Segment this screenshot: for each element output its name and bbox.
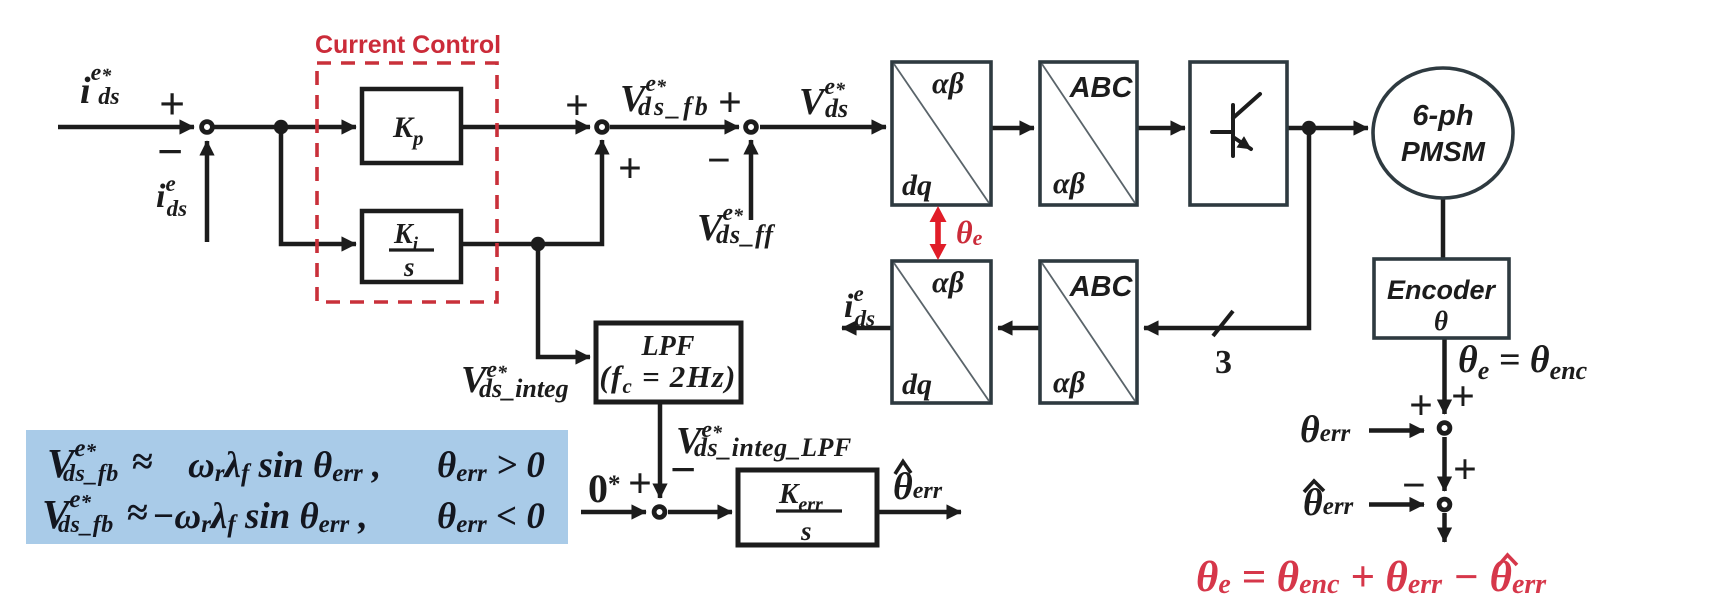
svg-text:LPF: LPF bbox=[641, 331, 695, 362]
svg-text:Ve*ds_ff: Ve*ds_ff bbox=[697, 200, 775, 249]
svg-text:+: + bbox=[618, 146, 642, 192]
svg-text:−: − bbox=[157, 126, 183, 177]
svg-text:(fc = 2Hz): (fc = 2Hz) bbox=[599, 359, 736, 398]
svg-text:θe: θe bbox=[956, 214, 983, 250]
svg-text:ieds: ieds bbox=[844, 281, 875, 331]
svg-text:3: 3 bbox=[1215, 344, 1232, 381]
svg-text:+: + bbox=[1453, 447, 1477, 493]
svg-text:−: − bbox=[707, 138, 731, 184]
svg-text:ieds: ieds bbox=[156, 171, 187, 221]
svg-text:αβ: αβ bbox=[1053, 167, 1086, 200]
svg-text:θe = θenc + θerr − θerr: θe = θenc + θerr − θerr bbox=[1196, 554, 1547, 601]
svg-text:Current Control: Current Control bbox=[315, 31, 501, 59]
svg-text:6-ph: 6-ph bbox=[1412, 100, 1473, 132]
svg-text:αβ: αβ bbox=[932, 266, 965, 299]
svg-text:αβ: αβ bbox=[1053, 366, 1086, 399]
svg-text:ABC: ABC bbox=[1069, 271, 1134, 303]
svg-text:−: − bbox=[670, 444, 696, 495]
svg-text:+: + bbox=[1451, 374, 1475, 420]
svg-text:θerr > 0: θerr > 0 bbox=[437, 445, 545, 487]
svg-text:dq: dq bbox=[902, 169, 932, 202]
svg-text:Ve*ds_integ: Ve*ds_integ bbox=[461, 357, 569, 403]
svg-text:+: + bbox=[628, 461, 652, 507]
svg-text:≈: ≈ bbox=[127, 492, 148, 534]
svg-text:+: + bbox=[718, 80, 742, 126]
svg-text:−: − bbox=[1402, 463, 1426, 509]
svg-text:+: + bbox=[159, 78, 185, 129]
svg-text:s: s bbox=[403, 252, 415, 282]
svg-text:θerr: θerr bbox=[893, 466, 943, 508]
svg-text:Ve*ds_fb: Ve*ds_fb bbox=[620, 71, 711, 121]
svg-text:≈: ≈ bbox=[132, 441, 153, 483]
svg-text:Ve*ds: Ve*ds bbox=[799, 74, 848, 123]
svg-text:αβ: αβ bbox=[932, 67, 965, 100]
svg-text:θe = θenc: θe = θenc bbox=[1458, 339, 1588, 385]
svg-text:s: s bbox=[800, 516, 812, 546]
svg-text:θerr: θerr bbox=[1303, 482, 1354, 524]
svg-text:+: + bbox=[1409, 383, 1433, 429]
svg-text:ABC: ABC bbox=[1069, 72, 1134, 104]
svg-text:0*: 0* bbox=[588, 466, 621, 511]
svg-text:ie*ds: ie*ds bbox=[80, 60, 120, 112]
svg-text:θ: θ bbox=[1434, 306, 1448, 336]
svg-text:Encoder: Encoder bbox=[1387, 275, 1497, 305]
svg-text:θerr < 0: θerr < 0 bbox=[437, 496, 545, 538]
svg-text:PMSM: PMSM bbox=[1401, 136, 1486, 167]
svg-text:dq: dq bbox=[902, 368, 932, 401]
svg-text:θerr: θerr bbox=[1300, 409, 1351, 451]
svg-text:Ve*ds_integ_LPF: Ve*ds_integ_LPF bbox=[676, 417, 852, 462]
svg-text:+: + bbox=[565, 83, 589, 129]
